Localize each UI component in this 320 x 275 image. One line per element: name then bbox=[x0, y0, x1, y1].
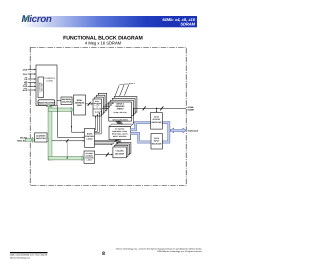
blue bus: DQ pad down to data input register bbox=[162, 130, 169, 142]
bank select lines from bank control up to latches bbox=[95, 116, 97, 130]
I/O gating / DQM mask logic box bbox=[109, 124, 133, 127]
svg-text:Micron: Micron bbox=[22, 14, 52, 25]
svg-text:ARRAY: ARRAY bbox=[117, 108, 125, 111]
svg-text:©2003 Micron Technology, Inc.: ©2003 Micron Technology, Inc. All rights… bbox=[157, 250, 203, 253]
svg-text:DECODER: DECODER bbox=[115, 152, 125, 155]
sense amplifiers strip bbox=[109, 118, 132, 122]
green address input arrow bbox=[25, 139, 31, 142]
svg-text:8: 8 bbox=[102, 251, 105, 257]
svg-text:MODE REGISTER: MODE REGISTER bbox=[38, 101, 55, 104]
chip boundary (dash-dot border) bbox=[30, 48, 186, 186]
wire from address bus down to bank control logic bbox=[71, 112, 73, 133]
svg-text:LOGIC: LOGIC bbox=[87, 138, 94, 141]
svg-text:MEMORY: MEMORY bbox=[116, 105, 126, 108]
svg-text:CAS: CAS bbox=[23, 85, 28, 88]
svg-text:BANK: BANK bbox=[87, 132, 93, 135]
data input register box bbox=[151, 134, 162, 150]
data output register box bbox=[151, 113, 163, 130]
svg-text:DQ0-DQ15: DQ0-DQ15 bbox=[188, 129, 199, 132]
svg-text:REGISTER: REGISTER bbox=[152, 142, 162, 145]
arrows latch to array (per bank) bbox=[102, 108, 108, 110]
control logic box U-CTRL bbox=[36, 65, 57, 106]
wire BA bus from green trunk to bank control logic (2) bbox=[52, 140, 83, 142]
svg-text:INPUT: INPUT bbox=[154, 140, 161, 143]
data ribbon sense amps to I/O gating bbox=[116, 121, 125, 126]
svg-text:DATA: DATA bbox=[154, 137, 160, 140]
blue bus: data input register to I/O gating bbox=[131, 133, 152, 142]
svg-text:RAS: RAS bbox=[23, 89, 28, 92]
footer rule bbox=[10, 252, 48, 254]
DQM branch down into data output register bbox=[156, 108, 158, 111]
column decoder stack bbox=[117, 143, 130, 154]
svg-text:CONTROL: CONTROL bbox=[44, 77, 55, 80]
svg-text:DATA: DATA bbox=[154, 116, 160, 119]
command decode box bbox=[38, 77, 44, 98]
svg-text:LOGIC: LOGIC bbox=[46, 80, 53, 83]
data ribbon I/O gating to column decoder bbox=[115, 140, 123, 145]
wire from control logic down to bank control logic bbox=[57, 106, 59, 138]
wire control logic to refresh counter bbox=[57, 100, 61, 102]
svg-text:MUX: MUX bbox=[77, 104, 82, 107]
blue bus: I/O gating to data output register bbox=[131, 123, 151, 130]
svg-text:CONTROL: CONTROL bbox=[85, 135, 95, 138]
green arrow refresh counter to row mux bbox=[72, 100, 73, 102]
bank select lines to column decoders bbox=[95, 139, 117, 141]
svg-text:COLUMN: COLUMN bbox=[116, 150, 125, 153]
wire row mux to row-address latch (12) bbox=[86, 103, 92, 105]
green horizontal bus to row-address mux bbox=[48, 108, 71, 111]
green arrow up into mode register bbox=[46, 105, 51, 107]
memory array stack (banks 3..1) bbox=[114, 97, 137, 113]
svg-text:COUNTER: COUNTER bbox=[62, 100, 72, 103]
svg-text:OUTPUT: OUTPUT bbox=[153, 118, 162, 121]
svg-text:WRITE DRIVERS: WRITE DRIVERS bbox=[113, 135, 127, 138]
green link address register to trunk bbox=[47, 138, 49, 141]
column-address counter/latch box bbox=[84, 151, 95, 163]
svg-text:64Mb_x4x8x16SDRAM_2.fm - Rev.: 64Mb_x4x8x16SDRAM_2.fm - Rev. I 6/02 EN bbox=[10, 254, 48, 257]
svg-text:Micron Technology, Inc., reser: Micron Technology, Inc., reserves the ri… bbox=[116, 247, 202, 250]
svg-text:CLK: CLK bbox=[23, 73, 28, 76]
svg-text:SDRAM: SDRAM bbox=[180, 22, 195, 27]
svg-text:REGISTER: REGISTER bbox=[152, 121, 162, 124]
junction down to column address bus bbox=[66, 141, 68, 158]
svg-text:4 Meg x 16 SDRAM: 4 Meg x 16 SDRAM bbox=[85, 41, 122, 46]
svg-text:READ DATA LATCH: READ DATA LATCH bbox=[112, 133, 128, 136]
wire counter to column decoder (8) bbox=[95, 154, 112, 156]
DQ bidirectional pad arrow bbox=[170, 128, 186, 133]
svg-text:DECODE: DECODE bbox=[41, 82, 44, 91]
green horizontal bus to column-address counter bbox=[48, 157, 82, 160]
svg-text:DQM MASK LOGIC: DQM MASK LOGIC bbox=[112, 130, 128, 133]
DQM line from right border to I/O gating bbox=[134, 107, 187, 109]
svg-text:REGISTER: REGISTER bbox=[36, 137, 46, 140]
green address bus: vertical trunk bbox=[48, 106, 52, 160]
svg-text:DQML,: DQML, bbox=[188, 106, 195, 109]
svg-text:ADDRESS: ADDRESS bbox=[36, 135, 46, 138]
bank control logic box bbox=[85, 128, 95, 147]
blue bus: data output register to DQ pad bbox=[162, 123, 171, 131]
column decoder front box bbox=[113, 147, 127, 158]
row-address latch & decoder bank 0 bbox=[93, 99, 102, 116]
svg-text:Micron Technology, Inc.: Micron Technology, Inc. bbox=[10, 256, 31, 259]
refresh counter box bbox=[61, 97, 72, 105]
svg-text:DQMH: DQMH bbox=[188, 109, 195, 112]
mode register box bbox=[38, 100, 55, 105]
svg-text:BANK 0: BANK 0 bbox=[116, 102, 124, 105]
row-address latch & decoder stack (banks 3..1) bbox=[98, 93, 107, 110]
memory array bank 0 box bbox=[109, 102, 132, 118]
bank callout lines and labels BANK1-3 bbox=[115, 85, 119, 96]
row-address mux box bbox=[74, 95, 86, 115]
address register box bbox=[35, 133, 47, 142]
svg-text:I/O GATING: I/O GATING bbox=[115, 127, 125, 130]
svg-text:CKE: CKE bbox=[23, 68, 28, 71]
